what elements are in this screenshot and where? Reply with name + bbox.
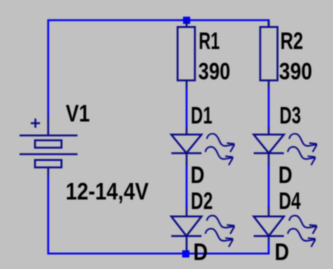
LED D1 light arrow 1: [207, 134, 235, 152]
LED D2 light arrow 2: [205, 229, 233, 247]
svg-text:D2: D2: [191, 188, 213, 215]
LED D4 light arrow 1: [289, 216, 317, 234]
battery plus sign: [31, 119, 40, 128]
svg-text:390: 390: [198, 59, 230, 86]
LED D1 light arrow 2: [205, 147, 233, 165]
svg-text:D: D: [191, 162, 205, 189]
svg-text:D1: D1: [191, 103, 213, 130]
svg-text:R1: R1: [199, 28, 220, 55]
svg-text:D4: D4: [279, 188, 301, 215]
svg-text:D: D: [193, 239, 208, 266]
LED D2: [171, 207, 201, 251]
svg-text:390: 390: [279, 58, 312, 85]
LED D1: [171, 127, 201, 165]
LED D4: [254, 207, 284, 242]
wire: R2 bottom to D3 top: [268, 88, 270, 128]
svg-text:R2: R2: [280, 28, 303, 55]
svg-text:12-14,4V: 12-14,4V: [66, 179, 149, 206]
LED D4 light arrow 2: [288, 229, 316, 247]
wire: R1 bottom to D1 top: [186, 88, 188, 128]
wire: D3 bottom to D4 top: [268, 165, 270, 208]
LED D3: [254, 127, 284, 165]
wire: D1 bottom to D2 top: [186, 165, 188, 208]
battery V1 symbol: [20, 115, 78, 178]
svg-text:V1: V1: [66, 101, 90, 128]
svg-text:D: D: [275, 239, 290, 266]
node: bottom junction square: [182, 250, 189, 257]
node: top junction square: [183, 17, 190, 24]
resistor R2: [260, 21, 277, 89]
svg-text:D3: D3: [280, 103, 302, 130]
LED D2 light arrow 1: [207, 216, 235, 234]
LED D3 light arrow 1: [289, 134, 317, 152]
LED D3 light arrow 2: [288, 147, 316, 165]
wire: bottom rail from battery bottom to D4 column: [48, 178, 269, 254]
wire: top rail from battery top-left corner to R2 drop: [48, 20, 269, 115]
svg-text:D: D: [278, 162, 292, 189]
resistor R1: [178, 20, 195, 88]
